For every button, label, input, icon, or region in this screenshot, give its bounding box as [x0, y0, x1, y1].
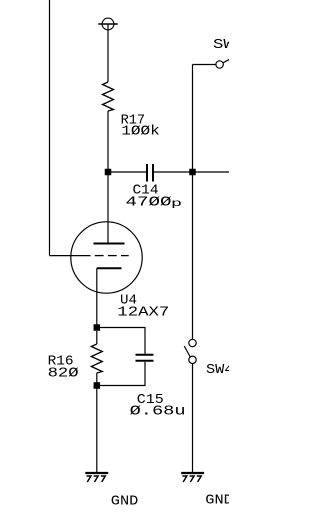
wire right vertical to SW4	[192, 65, 194, 340]
switch SW3 lever	[223, 59, 230, 63]
ground right	[181, 473, 204, 482]
triode U4 envelope	[71, 222, 142, 293]
wire SW4 to ground	[192, 364, 194, 473]
wire terminal to R17	[107, 24, 109, 82]
wire left vertical from top edge	[49, 0, 51, 256]
svg-text:GND: GND	[111, 495, 139, 510]
wire grid lead horizontal	[50, 255, 91, 257]
switch SW4 lever	[184, 346, 190, 357]
svg-text:Ø.68u: Ø.68u	[130, 404, 186, 419]
svg-text:SW3: SW3	[213, 38, 229, 53]
wire switch top horizontal	[193, 64, 216, 66]
triode U4 grid dashes	[95, 255, 129, 257]
ground left	[85, 473, 108, 482]
svg-text:SW4: SW4	[206, 363, 229, 378]
switch SW4 top contact	[189, 339, 196, 346]
wire R16 to node D	[96, 373, 98, 386]
node B junction	[189, 169, 196, 176]
wire node A to C14 left plate	[108, 171, 146, 173]
wire node B to right edge	[193, 171, 230, 173]
triode U4 cathode	[97, 267, 122, 269]
node A junction	[105, 169, 112, 176]
wire node C to C15 top	[97, 328, 145, 354]
svg-text:47ØØ: 47ØØ	[126, 195, 172, 210]
wire R17 to node A	[107, 111, 109, 172]
svg-text:12AX7: 12AX7	[117, 305, 169, 320]
resistor R16	[91, 344, 102, 373]
svg-text:1ØØk: 1ØØk	[121, 125, 160, 140]
wire cathode to node C	[96, 268, 98, 327]
capacitor C15	[136, 355, 154, 361]
terminal T1	[98, 18, 117, 30]
capacitor C14	[147, 164, 153, 182]
switch SW3 contact circle	[216, 61, 223, 68]
svg-text:GND: GND	[205, 494, 229, 509]
wire C14 right plate to node B	[154, 171, 193, 173]
svg-text:82Ø: 82Ø	[48, 366, 79, 381]
wire node C to R16	[96, 331, 98, 344]
wire C15 bottom to node D	[97, 362, 145, 386]
triode U4 plate	[94, 243, 125, 245]
wire node A to tube plate	[107, 172, 109, 244]
resistor R17	[103, 82, 114, 111]
switch SW4 bottom contact	[189, 356, 196, 363]
svg-text:p: p	[171, 198, 182, 210]
wire node D to ground	[96, 386, 98, 473]
node C junction	[94, 324, 101, 331]
node D junction	[94, 382, 101, 389]
